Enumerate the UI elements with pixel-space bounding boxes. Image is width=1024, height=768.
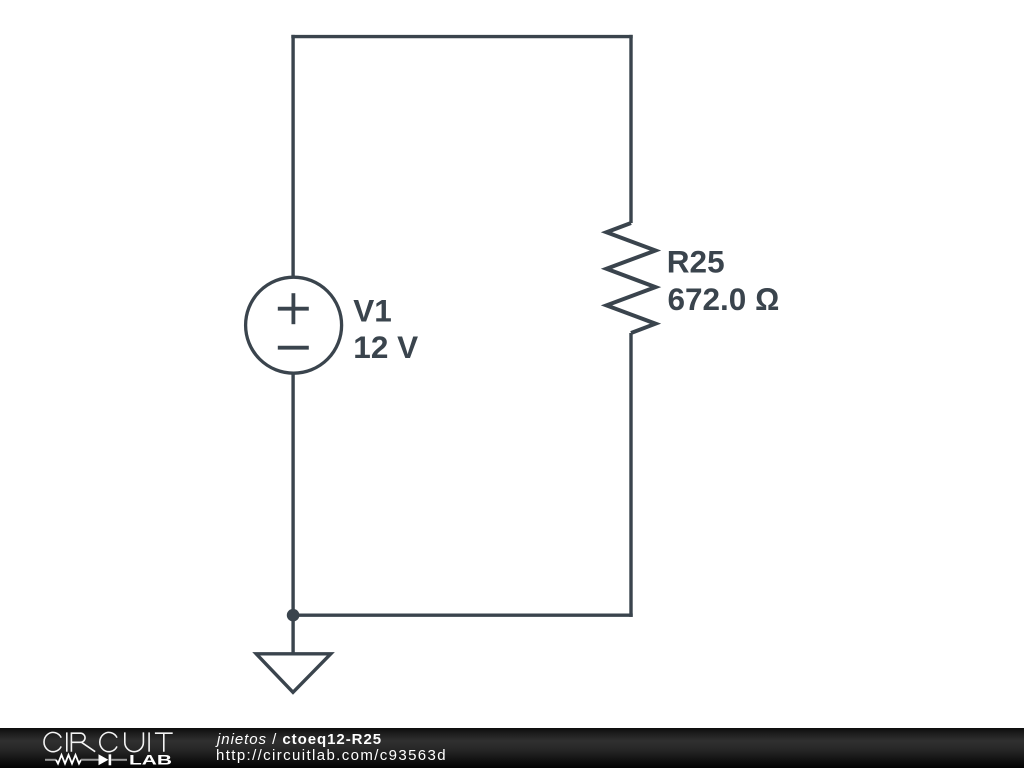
svg-text:R25: R25 [667,244,725,280]
voltage source V1 [246,277,342,373]
wire bottom from node to R25 [291,614,632,617]
resistor R25 [607,223,656,333]
svg-text:672.0 Ω: 672.0 Ω [668,281,780,317]
wire right upper (R25 top lead) [629,35,632,223]
credit text [216,727,218,729]
node junction [287,609,300,622]
logo resistor squiggle [45,754,127,765]
svg-text:V1: V1 [353,292,392,328]
svg-text:12 V: 12 V [353,329,418,365]
label V1 12 V [353,292,418,365]
logo letter T [155,733,173,752]
ground [256,654,331,693]
footer bar [0,728,1024,768]
CircuitLab logo [0,728,200,768]
logo diode [99,754,109,765]
logo letter I [148,732,150,751]
logo letter C [44,732,61,751]
logo letter R [71,733,95,752]
logo letter I [66,732,68,751]
wire ground stem [291,615,294,654]
wire right lower (R25 bottom lead) [629,333,632,617]
wire left lower (V1 bottom lead to node) [291,373,294,615]
logo letter C [100,732,117,751]
svg-text:LAB: LAB [129,753,172,768]
logo letter U [125,732,144,751]
wire left upper (V1 top lead) [291,35,294,278]
label R25 672.0 ohm [667,244,779,317]
wire top from V1 to R25 [291,35,632,38]
